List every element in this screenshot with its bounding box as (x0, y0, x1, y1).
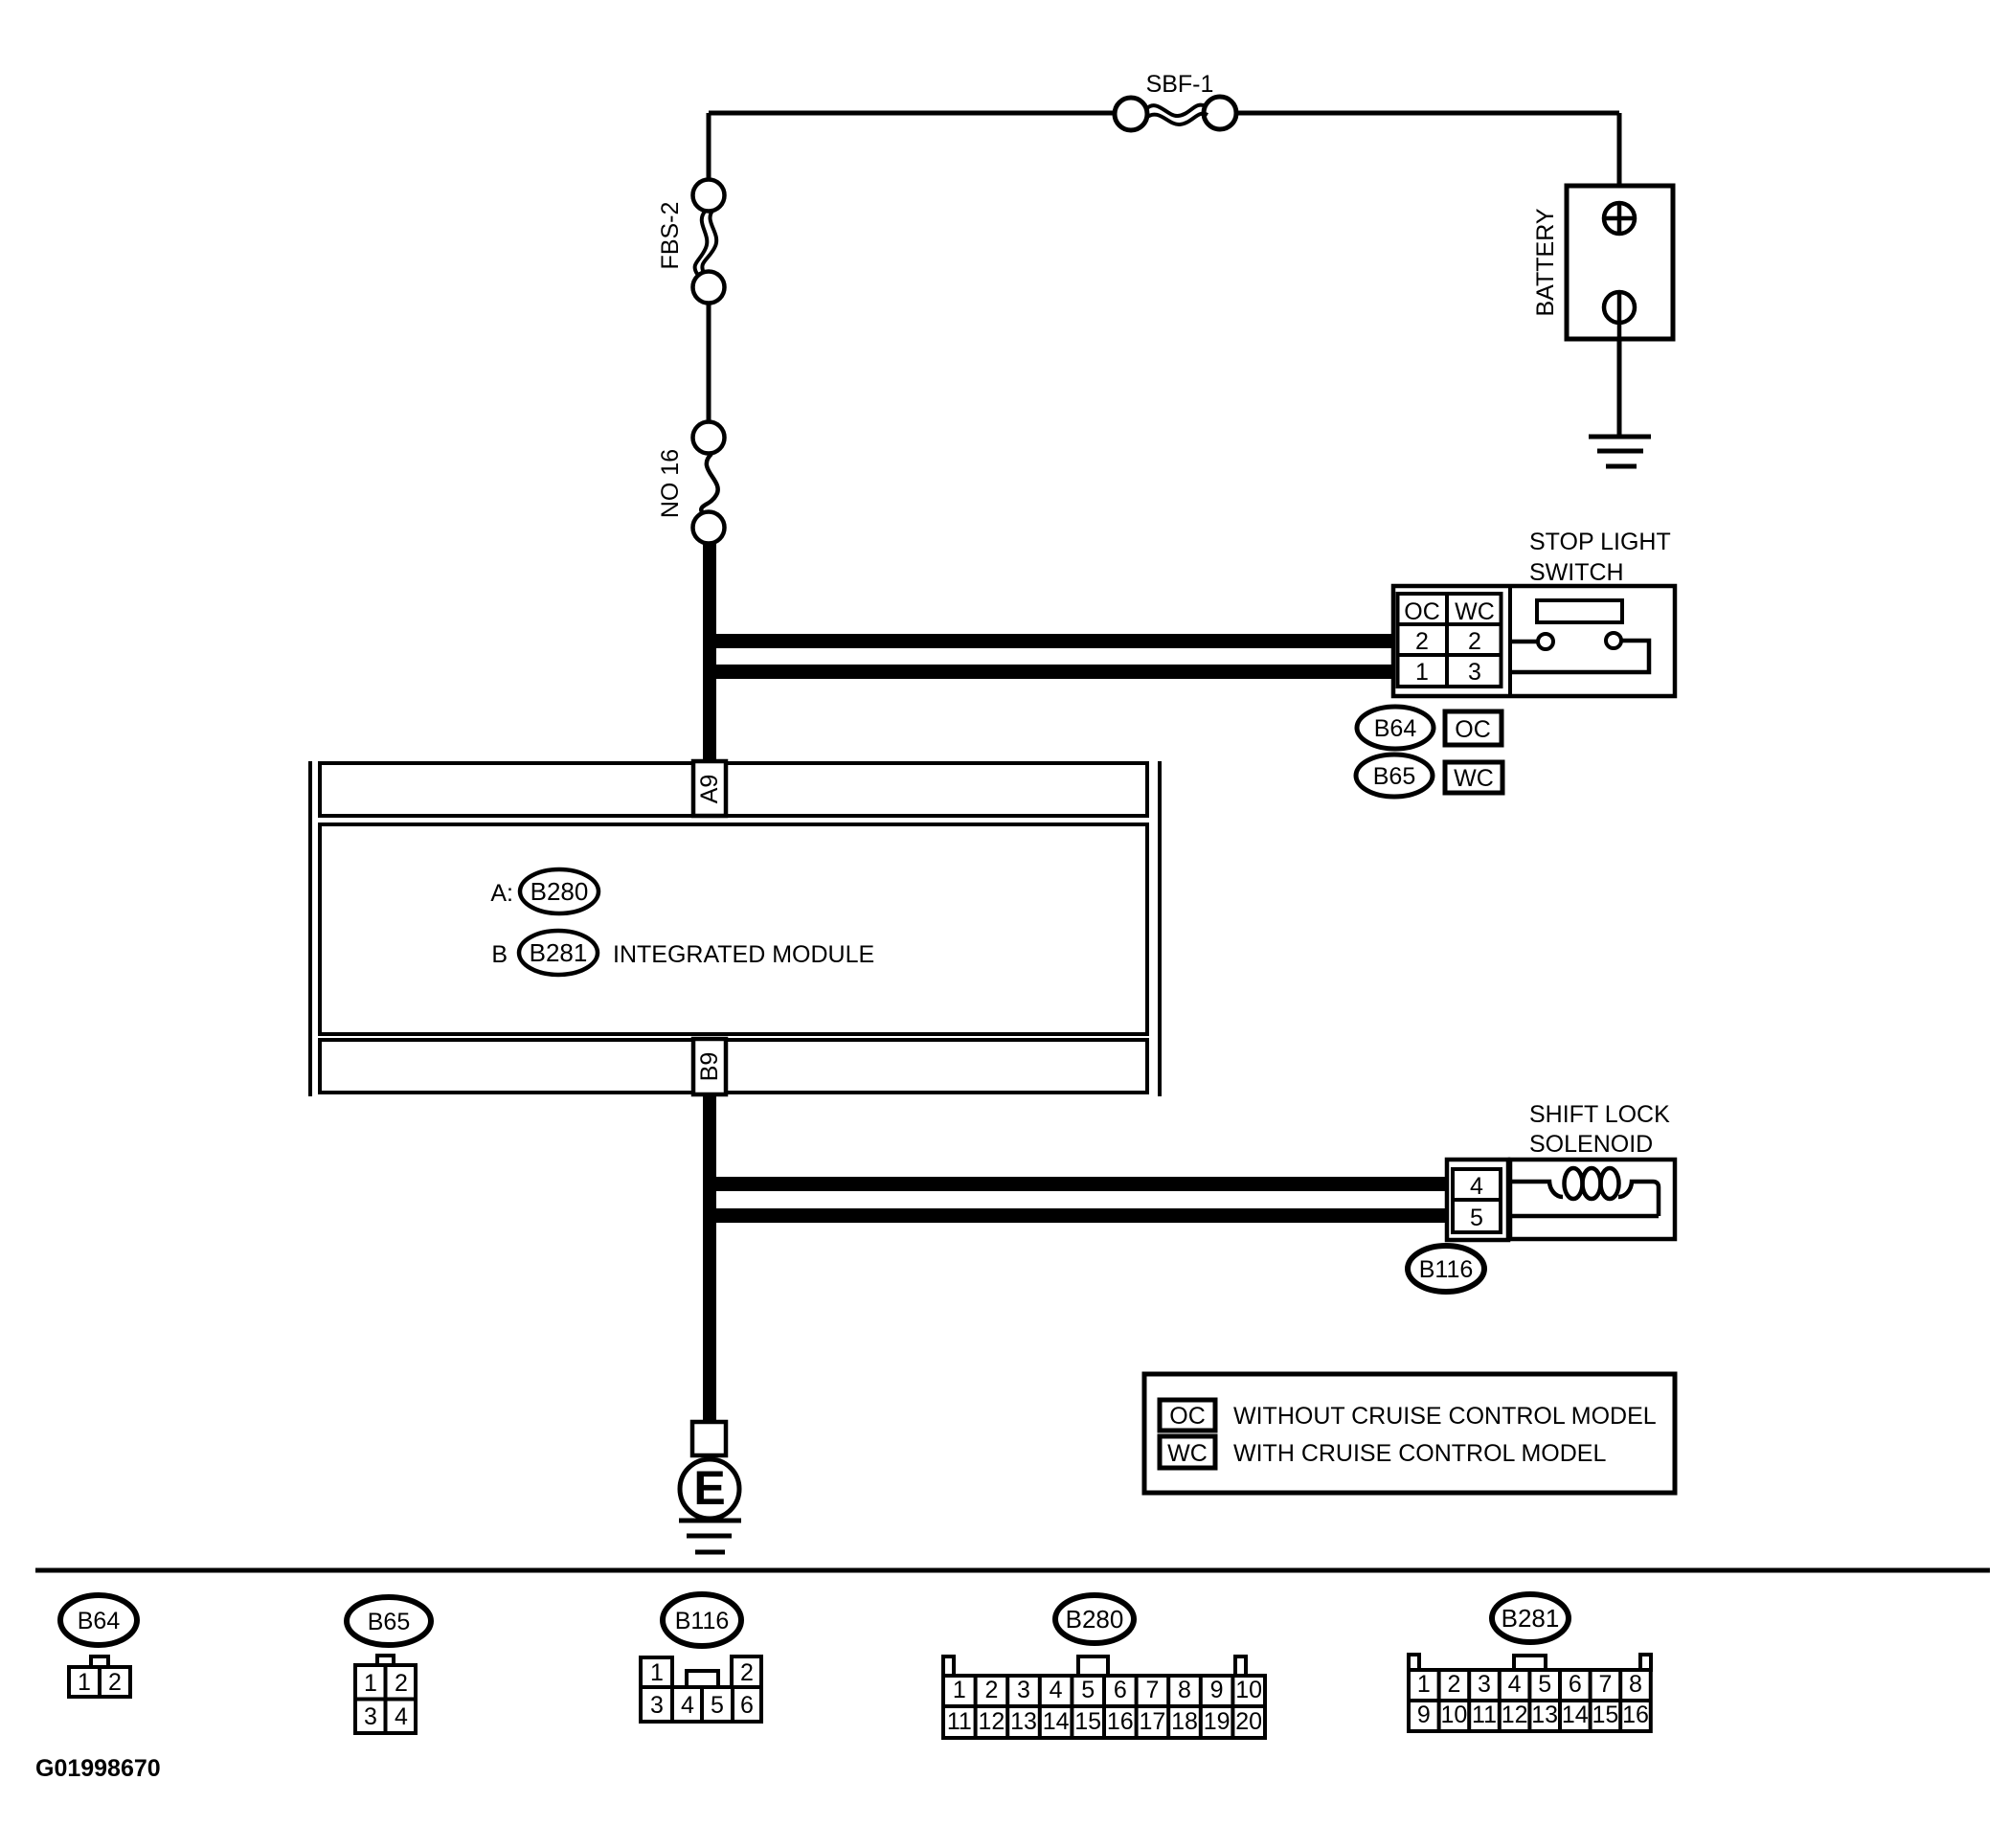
svg-text:OC: OC (1404, 598, 1440, 625)
svg-text:13: 13 (1010, 1708, 1037, 1735)
svg-text:7: 7 (1145, 1677, 1159, 1703)
svg-text:2: 2 (395, 1670, 408, 1697)
svg-text:11: 11 (947, 1708, 972, 1735)
connector pinout B65 (355, 1656, 416, 1733)
svg-text:2: 2 (1415, 628, 1429, 655)
ground (battery) (1589, 437, 1651, 466)
svg-text:WC: WC (1454, 765, 1494, 792)
svg-text:B281: B281 (1502, 1604, 1560, 1633)
svg-text:B65: B65 (368, 1609, 410, 1635)
svg-text:B116: B116 (1419, 1256, 1474, 1283)
wire top horizontal from NO16 branch to battery (709, 111, 1619, 116)
svg-text:16: 16 (1107, 1708, 1134, 1735)
thick wire NO16 to module A9 (703, 542, 716, 763)
svg-text:B64: B64 (1374, 715, 1417, 742)
svg-text:4: 4 (1508, 1671, 1522, 1698)
thick wire to solenoid pin 5 (703, 1208, 1449, 1223)
svg-text:3: 3 (364, 1703, 377, 1730)
node B116 (bottom) (663, 1594, 741, 1646)
integrated module U1 (310, 761, 1160, 1096)
svg-text:10: 10 (1235, 1677, 1262, 1703)
svg-text:B281: B281 (530, 938, 588, 967)
svg-text:20: 20 (1235, 1708, 1262, 1735)
wire left vertical to FBS-2 (707, 113, 711, 180)
node B65 (bottom) (347, 1597, 431, 1645)
svg-text:1: 1 (650, 1659, 664, 1686)
node B64 (bottom) (60, 1595, 137, 1645)
node B281 (bottom) (1492, 1594, 1569, 1642)
svg-text:17: 17 (1139, 1708, 1165, 1735)
svg-text:18: 18 (1171, 1708, 1198, 1735)
svg-text:SOLENOID: SOLENOID (1529, 1131, 1653, 1158)
svg-text:1: 1 (953, 1677, 966, 1703)
module pin A9 (693, 761, 726, 816)
svg-text:1: 1 (364, 1670, 377, 1697)
svg-text:15: 15 (1074, 1708, 1101, 1735)
svg-text:A:: A: (490, 880, 513, 907)
svg-text:WITH CRUISE CONTROL MODEL: WITH CRUISE CONTROL MODEL (1233, 1440, 1606, 1467)
svg-text:B9: B9 (696, 1052, 723, 1082)
svg-text:WITHOUT CRUISE CONTROL MODEL: WITHOUT CRUISE CONTROL MODEL (1233, 1403, 1657, 1430)
svg-text:OC: OC (1455, 716, 1491, 743)
module label B B281 INTEGRATED MODULE (491, 931, 874, 975)
svg-text:4: 4 (395, 1703, 408, 1730)
ground E (679, 1422, 741, 1552)
svg-text:14: 14 (1043, 1708, 1070, 1735)
thick wire to stop light switch pin 2 (703, 634, 1397, 648)
thick wire B9 down to ground E (703, 1096, 716, 1422)
module label A: B280 (490, 869, 598, 913)
legend box (1144, 1374, 1675, 1493)
svg-text:E: E (693, 1461, 725, 1515)
svg-text:1: 1 (78, 1669, 91, 1696)
svg-text:B280: B280 (531, 877, 589, 906)
svg-text:WC: WC (1167, 1440, 1208, 1467)
connector pinout B280 (943, 1656, 1265, 1738)
svg-text:12: 12 (1502, 1702, 1528, 1728)
connector tag B64 with OC (1357, 707, 1502, 749)
svg-text:5: 5 (711, 1692, 724, 1719)
separator line (35, 1568, 1990, 1573)
svg-text:1: 1 (1417, 1671, 1431, 1698)
wire between FBS-2 and NO 16 (707, 304, 711, 422)
svg-text:3: 3 (1468, 659, 1481, 686)
svg-text:INTEGRATED MODULE: INTEGRATED MODULE (613, 941, 874, 968)
svg-text:9: 9 (1417, 1702, 1431, 1728)
svg-text:16: 16 (1622, 1702, 1649, 1728)
connector pinout B281 (1409, 1655, 1651, 1731)
svg-text:1: 1 (1415, 659, 1429, 686)
svg-text:B65: B65 (1373, 763, 1415, 790)
connector pinout B116 (641, 1656, 761, 1722)
svg-text:10: 10 (1440, 1702, 1467, 1728)
svg-text:B64: B64 (78, 1608, 121, 1634)
svg-text:WC: WC (1455, 598, 1495, 625)
svg-text:19: 19 (1204, 1708, 1231, 1735)
connector pinout B64 (69, 1656, 130, 1697)
fuse NO 16 (657, 422, 725, 544)
svg-text:6: 6 (740, 1692, 754, 1719)
svg-text:B116: B116 (675, 1608, 730, 1634)
svg-text:3: 3 (1017, 1677, 1030, 1703)
svg-text:SBF-1: SBF-1 (1146, 71, 1214, 98)
fusible link FBS-2 (657, 180, 725, 304)
battery B1 (1532, 186, 1673, 339)
connector tag B65 with WC (1356, 755, 1502, 797)
thick wire to stop light switch pin 1/3 (703, 665, 1397, 679)
battery wire down (1617, 113, 1622, 203)
svg-text:G01998670: G01998670 (35, 1755, 161, 1782)
shift lock solenoid L1 (1447, 1101, 1675, 1240)
svg-text:2: 2 (108, 1669, 122, 1696)
node B280 (bottom) (1055, 1595, 1134, 1643)
svg-text:4: 4 (681, 1692, 694, 1719)
svg-text:3: 3 (650, 1692, 664, 1719)
svg-text:4: 4 (1470, 1173, 1483, 1200)
svg-text:14: 14 (1562, 1702, 1589, 1728)
svg-text:6: 6 (1114, 1677, 1127, 1703)
thick wire to solenoid pin 4 (703, 1177, 1449, 1191)
svg-text:4: 4 (1050, 1677, 1063, 1703)
svg-text:B: B (491, 941, 508, 968)
svg-text:A9: A9 (696, 775, 723, 804)
svg-text:5: 5 (1081, 1677, 1095, 1703)
connector tag B116 (solenoid) (1408, 1246, 1484, 1292)
svg-text:2: 2 (1468, 628, 1481, 655)
svg-text:9: 9 (1210, 1677, 1224, 1703)
svg-text:2: 2 (740, 1659, 754, 1686)
svg-text:FBS-2: FBS-2 (657, 202, 684, 270)
svg-text:15: 15 (1592, 1702, 1618, 1728)
fuse SBF-1 (1115, 71, 1236, 130)
svg-text:SHIFT LOCK: SHIFT LOCK (1529, 1101, 1670, 1128)
svg-text:2: 2 (1447, 1671, 1460, 1698)
stop light switch S1 (1393, 529, 1675, 696)
svg-text:6: 6 (1569, 1671, 1582, 1698)
svg-text:B280: B280 (1066, 1605, 1124, 1634)
svg-text:8: 8 (1629, 1671, 1642, 1698)
module pin B9 (693, 1039, 726, 1094)
battery ground wire (1617, 339, 1622, 437)
svg-text:BATTERY: BATTERY (1532, 208, 1559, 316)
svg-text:13: 13 (1531, 1702, 1558, 1728)
svg-text:3: 3 (1478, 1671, 1491, 1698)
svg-text:SWITCH: SWITCH (1529, 559, 1624, 586)
svg-text:5: 5 (1538, 1671, 1551, 1698)
figure id G01998670 (35, 1755, 161, 1782)
svg-text:11: 11 (1472, 1702, 1497, 1728)
svg-text:2: 2 (984, 1677, 998, 1703)
svg-text:7: 7 (1598, 1671, 1612, 1698)
svg-text:5: 5 (1470, 1205, 1483, 1231)
svg-text:OC: OC (1169, 1403, 1206, 1430)
svg-text:12: 12 (978, 1708, 1005, 1735)
svg-text:8: 8 (1178, 1677, 1191, 1703)
svg-text:NO 16: NO 16 (657, 449, 684, 518)
svg-text:STOP LIGHT: STOP LIGHT (1529, 529, 1671, 555)
